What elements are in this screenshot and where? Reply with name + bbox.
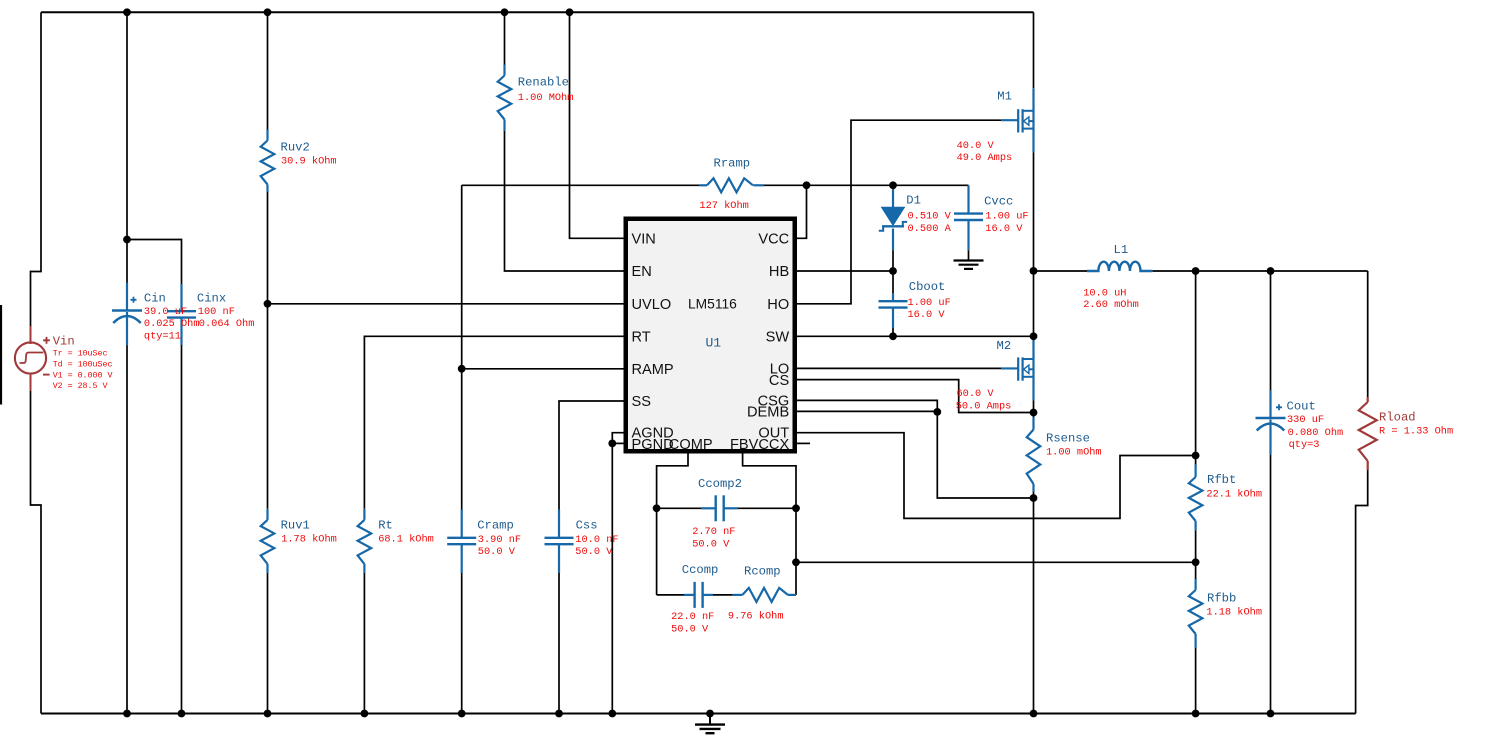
svg-text:Cin: Cin [144,291,166,305]
svg-text:Rramp: Rramp [714,156,751,170]
svg-text:COMP: COMP [669,437,713,453]
svg-text:Rsense: Rsense [1046,431,1090,445]
svg-text:SS: SS [632,394,652,410]
svg-text:LM5116: LM5116 [688,296,737,311]
svg-text:Cinx: Cinx [197,291,226,305]
svg-text:Tr = 10uSec: Tr = 10uSec [53,350,108,359]
svg-text:Cvcc: Cvcc [984,195,1013,209]
svg-text:50.0 V: 50.0 V [671,623,709,635]
svg-text:16.0 V: 16.0 V [908,309,946,321]
svg-text:UVLO: UVLO [632,297,672,313]
svg-text:M2: M2 [997,339,1012,353]
svg-text:10.0 nF: 10.0 nF [575,534,618,546]
svg-text:1.00 MOhm: 1.00 MOhm [518,92,574,104]
svg-text:50.0 V: 50.0 V [575,546,613,558]
svg-text:1.00 uF: 1.00 uF [908,297,951,309]
svg-text:0.080 Ohm: 0.080 Ohm [1288,427,1344,439]
svg-text:100 nF: 100 nF [198,306,235,318]
svg-text:330 uF: 330 uF [1287,414,1324,426]
svg-text:Rt: Rt [378,518,393,532]
svg-text:R = 1.33 Ohm: R = 1.33 Ohm [1379,426,1453,438]
svg-text:V1 = 0.000 V: V1 = 0.000 V [53,372,113,381]
svg-text:50.0 Amps: 50.0 Amps [956,400,1012,412]
svg-text:22.1 kOhm: 22.1 kOhm [1206,489,1262,501]
svg-text:1.18 kOhm: 1.18 kOhm [1206,607,1262,619]
svg-text:M1: M1 [997,89,1012,103]
svg-text:Rfbb: Rfbb [1207,591,1236,605]
svg-text:1.78 kOhm: 1.78 kOhm [281,534,337,546]
svg-text:Ruv2: Ruv2 [281,140,310,154]
svg-text:Vin: Vin [53,335,75,349]
svg-text:49.0 Amps: 49.0 Amps [957,152,1013,164]
svg-text:40.0 V: 40.0 V [957,140,995,152]
svg-text:2.60 mOhm: 2.60 mOhm [1083,299,1139,311]
svg-text:9.76 kOhm: 9.76 kOhm [728,610,784,622]
svg-text:Cboot: Cboot [909,280,946,294]
svg-text:VCC: VCC [758,231,789,247]
svg-text:qty=3: qty=3 [1289,439,1320,451]
svg-text:VIN: VIN [632,231,656,247]
svg-text:FBVCCX: FBVCCX [730,437,789,453]
svg-text:0.510 V: 0.510 V [908,211,952,223]
svg-text:V2 = 28.5 V: V2 = 28.5 V [53,382,108,391]
svg-text:Ruv1: Ruv1 [281,518,310,532]
svg-text:22.0 nF: 22.0 nF [671,611,714,623]
svg-text:RT: RT [632,329,651,345]
svg-text:16.0 V: 16.0 V [985,223,1023,235]
svg-text:3.90 nF: 3.90 nF [478,534,521,546]
svg-text:Ccomp: Ccomp [682,563,719,577]
svg-text:50.0 V: 50.0 V [478,546,516,558]
svg-text:qty=11: qty=11 [144,331,181,343]
svg-text:Cout: Cout [1287,399,1316,413]
svg-text:PGND: PGND [632,437,674,453]
svg-text:50.0 V: 50.0 V [692,538,730,550]
svg-text:127 kOhm: 127 kOhm [699,200,748,212]
svg-text:10.0 uH: 10.0 uH [1083,288,1126,300]
svg-text:60.0 V: 60.0 V [957,388,995,400]
svg-text:L1: L1 [1114,243,1129,257]
svg-text:Rfbt: Rfbt [1207,473,1236,487]
svg-text:HO: HO [767,297,789,313]
svg-text:U1: U1 [706,335,722,350]
svg-text:DEMB: DEMB [747,405,789,421]
svg-text:EN: EN [632,264,652,280]
svg-text:CS: CS [769,373,790,389]
svg-text:2.70 nF: 2.70 nF [692,526,735,538]
svg-text:Rload: Rload [1379,410,1416,424]
svg-text:RAMP: RAMP [632,362,674,378]
svg-text:39.0 uF: 39.0 uF [144,306,187,318]
svg-text:0.064 Ohm: 0.064 Ohm [199,318,255,330]
svg-text:SW: SW [766,329,790,345]
svg-text:Renable: Renable [518,75,569,89]
svg-text:HB: HB [769,264,789,280]
svg-text:D1: D1 [906,193,921,207]
svg-text:Cramp: Cramp [477,518,514,532]
svg-text:Ccomp2: Ccomp2 [698,477,742,491]
svg-text:30.9 kOhm: 30.9 kOhm [281,156,337,168]
svg-text:Css: Css [576,518,598,532]
svg-text:0.025 Ohm: 0.025 Ohm [144,318,200,330]
svg-text:Td = 100uSec: Td = 100uSec [53,360,113,370]
svg-text:0.500 A: 0.500 A [908,223,952,235]
svg-text:1.00 mOhm: 1.00 mOhm [1046,447,1102,459]
svg-text:1.00 uF: 1.00 uF [985,211,1028,223]
svg-text:68.1 kOhm: 68.1 kOhm [378,534,434,546]
svg-text:Rcomp: Rcomp [744,564,781,578]
